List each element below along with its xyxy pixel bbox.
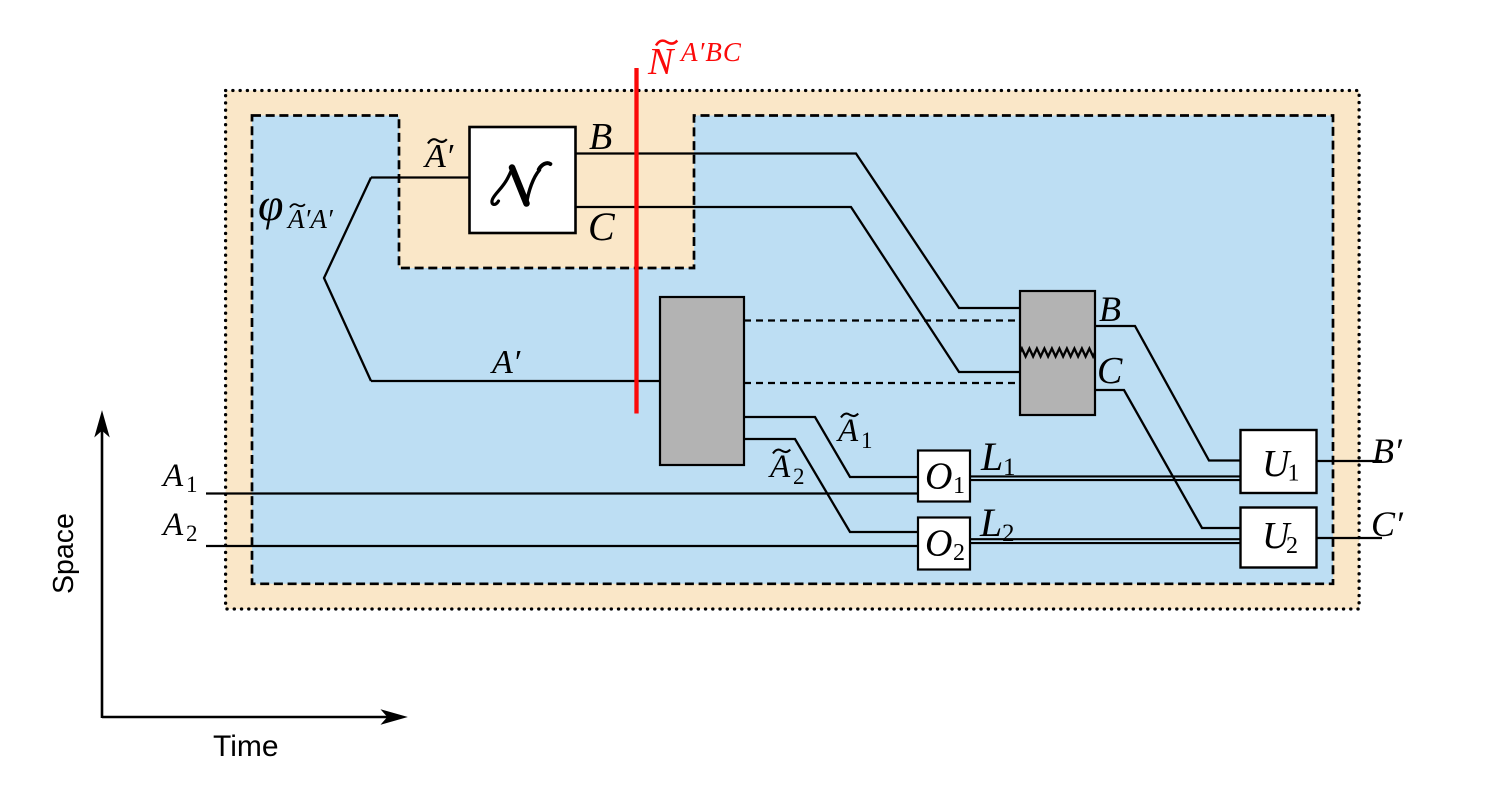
label A1 (161, 458, 198, 497)
svg-text:φ: φ (258, 179, 283, 230)
svg-text:1: 1 (953, 473, 965, 499)
svg-text:N: N (647, 41, 676, 83)
wire B to U1 (1095, 326, 1241, 461)
svg-text:A: A (161, 458, 184, 494)
svg-text:B′: B′ (1372, 431, 1403, 471)
channel box N (470, 127, 576, 233)
label Time (213, 730, 279, 763)
svg-text:A′: A′ (490, 344, 521, 381)
label N-tilde-A'BC (red) (647, 37, 742, 83)
svg-text:A: A (768, 449, 791, 485)
wire B from N to merge box (576, 154, 1021, 309)
unitary box U2 (1241, 508, 1317, 568)
time axis (102, 710, 406, 724)
label B-prime (1372, 431, 1403, 471)
svg-text:L: L (979, 500, 1002, 545)
svg-text:L: L (980, 434, 1003, 479)
dashed wire lower (split box to merge box) (744, 382, 1021, 384)
svg-text:C′: C′ (1371, 504, 1404, 544)
label A-tilde-1 (836, 413, 873, 453)
classical double wire L2 (970, 539, 1240, 543)
svg-text:Space: Space (48, 513, 80, 594)
svg-text:C: C (588, 204, 616, 249)
svg-text:O: O (925, 456, 952, 498)
svg-text:1: 1 (186, 472, 198, 497)
wire C-prime (1316, 537, 1382, 539)
merging box with zigzag (gray) (1020, 291, 1095, 415)
label A2 (161, 507, 198, 546)
wire A-prime (371, 380, 662, 382)
svg-text:A′A′: A′A′ (286, 204, 334, 234)
label L2 (979, 500, 1015, 547)
splitting isometry box (gray) (660, 297, 744, 465)
label L1 (980, 434, 1016, 481)
decoder box O2 (918, 518, 970, 570)
label Space (48, 513, 80, 594)
dashed wire upper (split box to merge box) (744, 319, 1021, 321)
wire A1 (206, 492, 918, 494)
wire C to U2 (1095, 390, 1241, 528)
space axis (95, 412, 109, 718)
label C at merge box (1097, 350, 1123, 392)
svg-text:2: 2 (1002, 520, 1015, 547)
svg-text:1: 1 (1003, 454, 1016, 481)
outer dotted boundary (global region, peach fill) (226, 91, 1360, 610)
wire C from N to merge box (576, 207, 1021, 372)
label C-prime (1371, 504, 1404, 544)
svg-text:2: 2 (1286, 533, 1298, 559)
wire A-tilde-2 to O2 (744, 439, 918, 532)
label A-tilde-2 (768, 449, 805, 489)
entangled state phi wedge (324, 178, 371, 382)
label A-prime on wire (490, 344, 521, 381)
svg-text:2: 2 (793, 464, 805, 489)
label A-tilde-prime (423, 138, 454, 175)
svg-text:A: A (836, 413, 859, 449)
inner dashed boundary (blue region with notch around channel N) (252, 116, 1333, 584)
label B at merge box (1099, 289, 1121, 329)
label B at N (589, 116, 612, 158)
svg-text:B: B (1099, 289, 1121, 329)
svg-text:1: 1 (861, 428, 873, 453)
label C at N (588, 204, 616, 249)
svg-text:A′: A′ (423, 138, 454, 175)
wire A-tilde-1 to O1 (744, 417, 918, 477)
svg-text:2: 2 (953, 540, 965, 566)
svg-text:A′BC: A′BC (679, 37, 742, 67)
svg-text:Time: Time (213, 730, 279, 763)
svg-text:O: O (925, 523, 952, 565)
wire A2 (206, 545, 918, 547)
classical double wire L1 (970, 476, 1240, 480)
wire A-tilde-prime into N (371, 176, 471, 178)
svg-text:C: C (1097, 350, 1123, 392)
decoder box O1 (918, 451, 970, 502)
unitary box U1 (1241, 430, 1317, 493)
svg-text:2: 2 (186, 521, 198, 546)
wire B-prime (1316, 460, 1382, 462)
label phi_A'A' (258, 179, 334, 234)
red cut line N-tilde (634, 68, 638, 414)
svg-text:1: 1 (1288, 461, 1300, 487)
svg-text:B: B (589, 116, 612, 158)
svg-text:A: A (161, 507, 184, 543)
